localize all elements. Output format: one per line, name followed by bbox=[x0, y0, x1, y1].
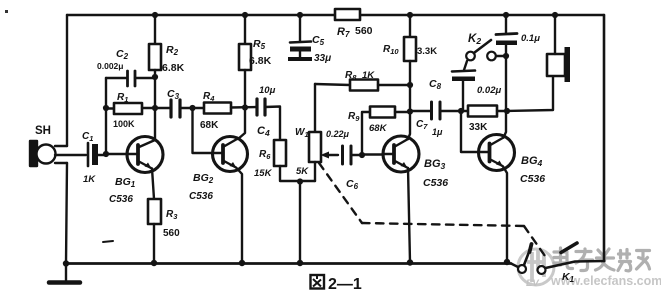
svg-text:C3: C3 bbox=[167, 88, 180, 101]
wire base branch down to BG2 bbox=[193, 108, 214, 153]
svg-text:BG1: BG1 bbox=[115, 176, 136, 189]
resistor R7 bbox=[335, 9, 373, 39]
potentiometer W1 bbox=[295, 84, 338, 181]
svg-text:C1: C1 bbox=[82, 131, 93, 143]
svg-text:C5: C5 bbox=[312, 34, 325, 47]
transistor BG2 bbox=[189, 108, 248, 264]
svg-text:BG4: BG4 bbox=[521, 155, 543, 168]
node rail speaker bbox=[552, 12, 558, 18]
svg-text:3.3K: 3.3K bbox=[417, 46, 437, 57]
transistor BG4 bbox=[479, 111, 546, 262]
node rail C5 bbox=[297, 12, 303, 18]
svg-text:C8: C8 bbox=[429, 78, 442, 91]
svg-text:R3: R3 bbox=[166, 209, 178, 221]
svg-text:0.1μ: 0.1μ bbox=[521, 33, 540, 44]
capacitor C2 bbox=[97, 48, 155, 86]
node K2 right bbox=[503, 53, 509, 59]
svg-text:1μ: 1μ bbox=[432, 127, 443, 137]
capacitor 0.1u bbox=[496, 15, 540, 56]
dashed link W1 to K1 bbox=[319, 163, 545, 256]
svg-text:2—1: 2—1 bbox=[328, 276, 362, 293]
svg-text:BG3: BG3 bbox=[424, 158, 446, 171]
wire top supply rail left section bbox=[67, 14, 335, 16]
node rail 0.1u bbox=[503, 12, 509, 18]
svg-text:K2: K2 bbox=[468, 33, 481, 46]
svg-text:C6: C6 bbox=[346, 178, 359, 191]
svg-text:5K: 5K bbox=[296, 166, 309, 177]
svg-text:BG2: BG2 bbox=[193, 172, 214, 185]
wire vertical C2/R1 left branch bbox=[105, 78, 107, 154]
resistor R1 bbox=[106, 92, 170, 129]
node rail R5 bbox=[242, 12, 248, 18]
wire BG4 collector vertical bbox=[505, 56, 507, 111]
svg-text:68K: 68K bbox=[369, 123, 388, 134]
svg-text:C536: C536 bbox=[423, 177, 448, 189]
svg-text:68K: 68K bbox=[200, 120, 219, 131]
wire mic upper stub bbox=[55, 145, 67, 147]
switch K1 bbox=[511, 244, 575, 284]
stray dash mark bbox=[103, 241, 113, 242]
svg-text:R10: R10 bbox=[383, 44, 399, 56]
svg-text:C536: C536 bbox=[109, 194, 133, 205]
resistor R5 bbox=[239, 15, 272, 107]
resistor R8 bbox=[315, 70, 410, 91]
svg-text:R7: R7 bbox=[337, 26, 350, 39]
capacitor C1 bbox=[82, 131, 98, 185]
arrow actuation mark bbox=[561, 243, 577, 253]
svg-text:0.02μ: 0.02μ bbox=[477, 85, 501, 96]
wire base node to BG1 bbox=[106, 153, 128, 155]
svg-text:0.002μ: 0.002μ bbox=[97, 61, 123, 71]
svg-text:C7: C7 bbox=[416, 119, 428, 131]
svg-text:R4: R4 bbox=[203, 91, 215, 103]
svg-text:R8: R8 bbox=[345, 70, 357, 82]
node BG4 emitter ground bbox=[504, 259, 510, 265]
svg-text:15K: 15K bbox=[254, 168, 273, 179]
resistor R3 bbox=[148, 199, 180, 263]
svg-text:C2: C2 bbox=[116, 48, 129, 61]
node R1 right / BG1 collector bbox=[152, 105, 158, 111]
resistor R2 bbox=[149, 15, 185, 108]
transistor BG1 bbox=[109, 108, 163, 205]
svg-text:6.8K: 6.8K bbox=[249, 55, 272, 67]
node 33K right / BG4 collector bbox=[504, 108, 510, 114]
wire mic output to C1 bbox=[55, 154, 86, 156]
svg-text:560: 560 bbox=[163, 228, 180, 239]
node divider ground bbox=[297, 260, 303, 266]
svg-text:R9: R9 bbox=[348, 111, 360, 123]
wire mic lower stub bbox=[55, 162, 67, 164]
svg-text:R5: R5 bbox=[253, 38, 266, 51]
node BG2 emitter ground bbox=[239, 260, 245, 266]
node R8 right bbox=[407, 82, 413, 88]
capacitor C4 bbox=[257, 85, 280, 140]
node R4 right / BG2 collector bbox=[242, 104, 248, 110]
capacitor C3 bbox=[167, 88, 204, 117]
wire right vertical battery branch bbox=[603, 15, 606, 261]
node BG3 base bbox=[359, 152, 365, 158]
wire left vertical from rail to microphone bbox=[66, 15, 68, 146]
wire divider bottom to ground rail bbox=[299, 182, 301, 264]
node C2 right bbox=[152, 74, 158, 80]
wire left vertical below mic to ground rail bbox=[66, 163, 67, 263]
svg-text:R1: R1 bbox=[117, 92, 128, 104]
resistor R11 33K bbox=[461, 106, 507, 134]
node BG1 emitter ground bbox=[151, 260, 157, 266]
ground symbol bbox=[49, 260, 80, 282]
wire base branch to BG4 bbox=[461, 111, 479, 152]
node R6/W1 bottom bbox=[297, 178, 303, 184]
speaker Y bbox=[507, 15, 570, 111]
svg-text:33K: 33K bbox=[469, 122, 488, 133]
svg-text:SH: SH bbox=[35, 125, 51, 137]
watermark text dianzifashaoyou bbox=[554, 248, 650, 271]
svg-text:560: 560 bbox=[355, 25, 373, 37]
ground rail bottom bbox=[66, 262, 511, 265]
node rail R10 bbox=[407, 12, 413, 18]
svg-text:R6: R6 bbox=[259, 149, 271, 161]
microphone SH bbox=[30, 125, 56, 166]
svg-text:1K: 1K bbox=[362, 70, 375, 81]
resistor R4 bbox=[200, 91, 256, 131]
resistor R9 bbox=[348, 107, 410, 156]
svg-text:EV: EV bbox=[526, 278, 539, 289]
capacitor C6 bbox=[326, 129, 362, 191]
svg-text:33μ: 33μ bbox=[314, 53, 331, 64]
stray mark top-left bbox=[5, 10, 8, 13]
node BG3 emitter ground bbox=[407, 259, 413, 265]
svg-text:100K: 100K bbox=[113, 119, 135, 129]
wire C1 to base node bbox=[98, 154, 106, 156]
wire top supply rail right section bbox=[360, 14, 604, 16]
svg-text:C536: C536 bbox=[189, 191, 213, 202]
resistor R6 bbox=[254, 140, 315, 181]
svg-text:C536: C536 bbox=[520, 173, 545, 185]
node rail R2 bbox=[152, 12, 158, 18]
node R1 left bbox=[103, 105, 109, 111]
svg-text:6.8K: 6.8K bbox=[162, 62, 185, 74]
capacitor C5 bbox=[288, 15, 331, 64]
caption 图 2-1 bbox=[311, 275, 325, 289]
wire base node to BG3 bbox=[362, 153, 384, 155]
wire K1 right to vertical bbox=[546, 261, 605, 268]
node base BG1 bbox=[103, 151, 109, 157]
switch K2 bbox=[466, 33, 506, 60]
svg-text:0.22μ: 0.22μ bbox=[326, 129, 350, 139]
capacitor C7 bbox=[410, 102, 461, 137]
node BG2 base branch bbox=[189, 105, 195, 111]
svg-text:10μ: 10μ bbox=[259, 85, 276, 96]
svg-text:R2: R2 bbox=[166, 44, 179, 57]
watermark logo bbox=[518, 249, 554, 289]
node R9 right / BG3 collector bbox=[407, 108, 413, 114]
svg-text:C4: C4 bbox=[257, 125, 270, 138]
svg-text:K1: K1 bbox=[562, 271, 575, 284]
capacitor C8 bbox=[429, 61, 501, 111]
transistor BG3 bbox=[383, 112, 448, 263]
resistor R10 bbox=[383, 15, 437, 111]
node BG4 base branch bbox=[458, 108, 464, 114]
svg-text:W1: W1 bbox=[295, 127, 309, 139]
svg-text:1K: 1K bbox=[83, 174, 96, 185]
